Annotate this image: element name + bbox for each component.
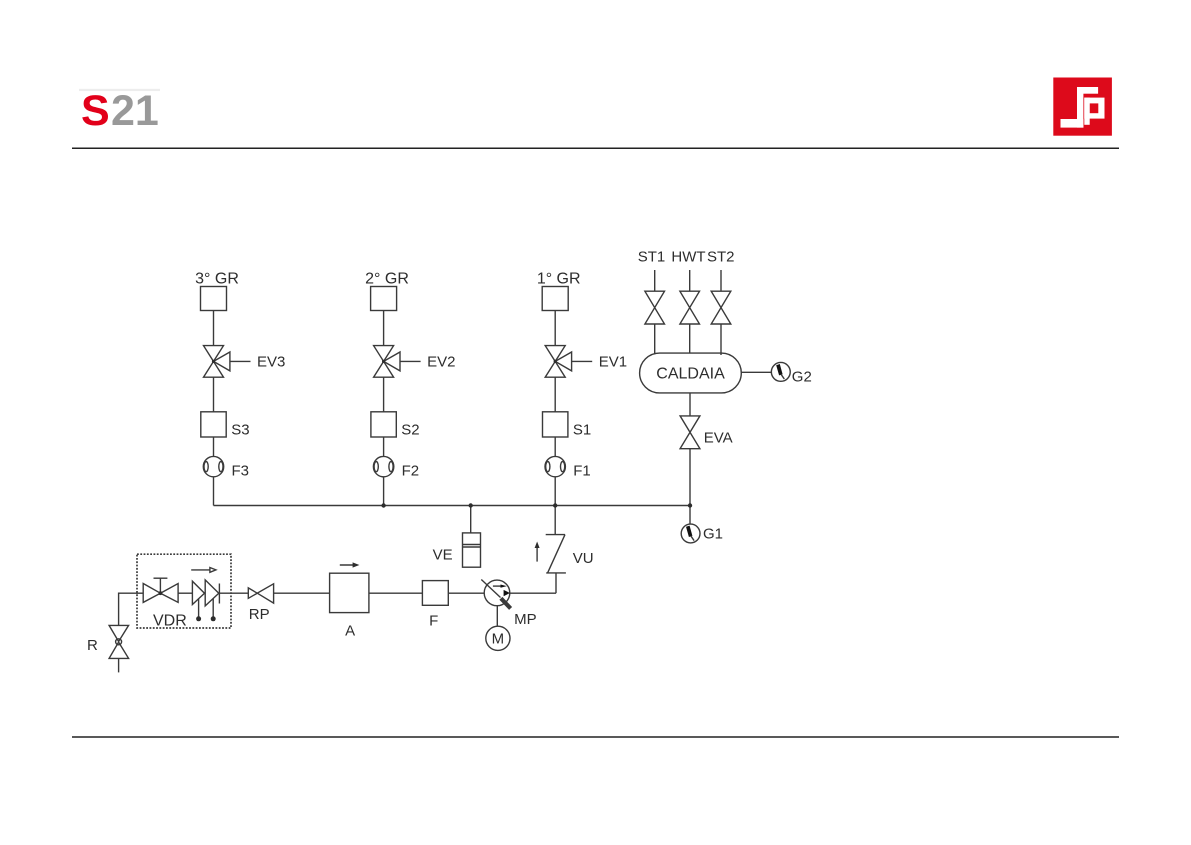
svg-text:CALDAIA: CALDAIA <box>656 366 725 383</box>
wire <box>213 437 215 456</box>
svg-text:ST2: ST2 <box>707 249 735 266</box>
motor M <box>486 626 510 650</box>
wire <box>213 311 215 346</box>
wire <box>554 437 556 456</box>
wire <box>383 377 385 412</box>
valve HWT <box>680 270 700 353</box>
flow arrow in VDR <box>191 568 216 573</box>
sensor box S3 <box>201 412 226 437</box>
logo white p <box>1084 98 1104 119</box>
svg-text:3° GR: 3° GR <box>195 271 239 288</box>
svg-text:M: M <box>492 631 505 648</box>
svg-text:VDR: VDR <box>153 612 187 629</box>
svg-text:F: F <box>429 613 438 630</box>
svg-text:R: R <box>87 637 98 654</box>
flow meter F3 <box>203 456 223 476</box>
safety valve R <box>109 625 129 672</box>
vent lines with dots <box>196 599 216 622</box>
wire gate valve to check valves <box>178 592 192 594</box>
valve ST1 <box>645 270 665 355</box>
svg-text:S2: S2 <box>401 421 419 438</box>
wire bus to G1 <box>689 506 691 525</box>
valve EVA <box>680 416 700 449</box>
svg-text:G1: G1 <box>703 526 723 543</box>
solenoid valve EV2 <box>374 346 421 378</box>
svg-text:G2: G2 <box>792 369 812 386</box>
svg-text:21: 21 <box>111 87 159 135</box>
VU direction arrow <box>535 542 540 562</box>
svg-text:F2: F2 <box>402 463 420 480</box>
VDR internal wire left <box>137 592 143 594</box>
wire <box>554 477 556 506</box>
check valve 2 <box>205 580 219 606</box>
wire <box>554 311 556 346</box>
group box 3 <box>201 287 227 311</box>
svg-text:EV1: EV1 <box>599 354 627 371</box>
group box 1 <box>542 287 568 311</box>
svg-text:A: A <box>345 623 355 640</box>
wire RP to VDR <box>219 592 248 594</box>
wire to G2 <box>741 371 771 373</box>
svg-text:F3: F3 <box>232 463 250 480</box>
svg-text:EVA: EVA <box>704 430 733 447</box>
gate valve in VDR <box>143 578 178 602</box>
faint band above S21 <box>79 89 160 91</box>
solenoid valve EV3 <box>204 346 251 378</box>
svg-text:RP: RP <box>249 606 270 623</box>
wire A to RP <box>274 592 330 594</box>
valve ST2 <box>711 270 731 355</box>
svg-text:VE: VE <box>433 547 453 564</box>
svg-text:S3: S3 <box>231 421 249 438</box>
gauge G1 <box>681 524 700 543</box>
svg-text:2° GR: 2° GR <box>365 271 409 288</box>
flow meter F1 <box>545 456 565 476</box>
svg-text:HWT: HWT <box>671 249 705 266</box>
wire boiler to EVA <box>689 393 691 416</box>
flow meter F2 <box>373 456 393 476</box>
svg-text:S1: S1 <box>573 421 591 438</box>
group box 2 <box>371 287 397 311</box>
footer rule <box>72 736 1119 738</box>
wire <box>554 377 556 412</box>
solenoid valve EV1 <box>545 346 592 378</box>
sensor box S2 <box>371 412 396 437</box>
svg-text:VU: VU <box>573 550 594 567</box>
wire <box>213 377 215 412</box>
logo white step shape <box>1077 87 1083 128</box>
gauge G2 <box>771 362 790 381</box>
arrow above A <box>340 562 360 567</box>
svg-text:EV2: EV2 <box>427 354 455 371</box>
svg-text:EV3: EV3 <box>257 354 285 371</box>
svg-text:ST1: ST1 <box>638 249 666 266</box>
svg-text:MP: MP <box>514 611 537 628</box>
svg-text:F1: F1 <box>573 463 591 480</box>
S21 logo text <box>81 87 159 135</box>
wire VDR to R valve <box>119 593 137 625</box>
header rule <box>72 147 1119 149</box>
wire <box>213 477 215 506</box>
wire <box>383 311 385 346</box>
wire MP to VU riser <box>510 592 556 594</box>
svg-text:1° GR: 1° GR <box>537 271 581 288</box>
wire MP to motor <box>496 606 498 627</box>
company logo red square <box>1053 78 1112 136</box>
svg-text:S: S <box>81 87 110 135</box>
check valve 1 <box>192 581 204 604</box>
wire <box>383 437 385 456</box>
boiler CALDAIA <box>640 353 742 393</box>
wire F to A <box>369 592 423 594</box>
wire <box>383 477 385 506</box>
sensor box S1 <box>543 412 568 437</box>
junction dots on bus <box>381 503 692 507</box>
wire EVA to bus <box>689 449 691 506</box>
